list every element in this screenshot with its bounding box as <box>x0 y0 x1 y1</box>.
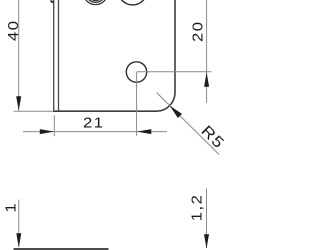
plate bottom edge <box>53 110 156 112</box>
extension line bottom-left <box>14 110 54 112</box>
bend inner edge line <box>58 0 60 112</box>
dimension line 20 <box>206 0 208 103</box>
countersunk hole rings (cut off) <box>83 0 107 5</box>
dimension line 1,2 <box>206 189 208 249</box>
extension line left (below bend) <box>53 115 55 136</box>
svg-text:1,2: 1,2 <box>189 194 205 222</box>
extension line from hole center to right <box>137 71 212 73</box>
R5 arrowhead (pointing up-left at arc) <box>170 106 182 118</box>
extension line from hole center down <box>136 72 138 136</box>
dimension line 1 <box>18 200 20 247</box>
corner radius arc R5 <box>157 93 176 112</box>
dimension line 40 <box>18 0 20 111</box>
arrowhead 1 (down) <box>16 233 21 247</box>
svg-text:21: 21 <box>83 115 105 131</box>
hole circle <box>126 62 146 82</box>
svg-text:20: 20 <box>190 20 206 42</box>
arrowhead 21 right (pointing left) <box>137 129 151 134</box>
bend outer edge line <box>53 0 55 112</box>
arrowhead 21 left (pointing right) <box>40 129 54 134</box>
arrowhead 40 (down) <box>16 96 21 110</box>
arrowhead 1,2 (down) <box>204 234 209 248</box>
plate right edge <box>174 0 176 93</box>
R5 leader line <box>157 93 220 155</box>
top-left corner tick <box>50 1 54 3</box>
svg-text:1: 1 <box>3 202 19 213</box>
dimension line 21 <box>23 131 167 133</box>
bottom view top edge <box>14 248 109 250</box>
arrowhead 20 (up) <box>204 72 209 86</box>
upper open hole circle (cut off) <box>118 0 147 5</box>
svg-text:40: 40 <box>6 20 22 42</box>
